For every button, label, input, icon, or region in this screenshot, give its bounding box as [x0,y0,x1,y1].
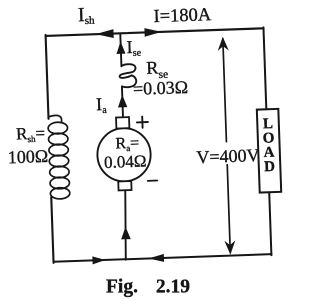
label 100ohm [7,146,48,167]
load box [257,109,281,193]
series winding coil Rse [119,64,136,87]
label Ish [78,4,96,28]
wire bottom [54,254,272,262]
arrow Ia [118,95,128,108]
arrow bottom left [92,256,105,264]
svg-text:0.04Ω: 0.04Ω [104,151,147,171]
wire right upper [263,27,266,109]
svg-text:Ia: Ia [96,94,108,116]
arrow bottom right [148,254,164,263]
arrow up below armature [121,227,131,240]
arrow Ise [116,41,125,54]
wire left lower [51,197,53,263]
brush terminal bottom [118,181,131,190]
svg-text:100Ω: 100Ω [7,146,48,167]
svg-text:Fig. 2.19: Fig. 2.19 [106,277,190,298]
svg-text:Ise: Ise [126,37,142,60]
svg-text:Ish: Ish [78,4,96,28]
armature circle Ra [97,127,152,182]
label Ia [96,94,108,116]
label Rsh= [16,124,46,145]
shunt field coil Rsh [48,115,70,199]
wire left upper [46,35,49,119]
label Ra= [115,135,139,154]
wire armature lower [123,190,127,260]
voltage arrow line upper [223,39,227,142]
load letters [262,116,276,175]
voltage arrowhead bottom [224,240,235,254]
label I=180A [153,5,212,27]
svg-text:Rsh=: Rsh= [16,124,46,145]
label Rse [146,57,168,81]
voltage arrow line lower [227,165,230,253]
label V=400V [196,145,260,167]
wire top [46,28,264,36]
label Ise [126,37,142,60]
arrow I on top wire [144,28,161,37]
brush terminal top [116,117,129,128]
arrow Ish on top wire [95,29,113,38]
plus sign [137,116,148,128]
voltage arrowhead top [217,37,228,51]
svg-text:I=180A: I=180A [153,5,212,27]
label 0.04ohm [104,151,147,171]
caption Fig. 2.19 [106,277,190,298]
svg-text:=0.03Ω: =0.03Ω [133,77,189,99]
label =0.03ohm [133,77,189,99]
minus sign [148,180,157,182]
wire right lower [269,192,271,255]
wire series branch upper [120,33,121,66]
svg-text:D: D [264,159,276,175]
svg-text:V=400V: V=400V [196,145,260,167]
wire armature upper [122,86,123,118]
